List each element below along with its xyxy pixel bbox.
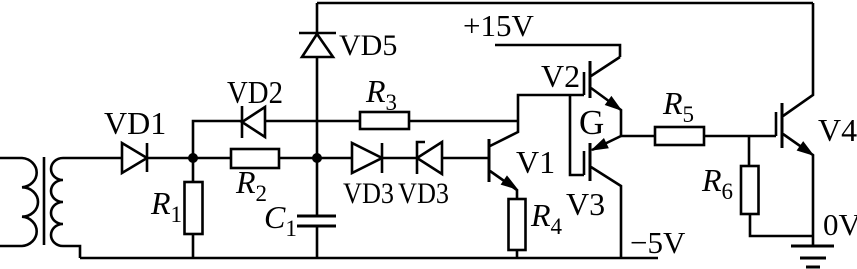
svg-text:V1: V1 [516,144,555,180]
transistor V2 [583,72,586,95]
wire R5 to V4 gate [704,135,776,138]
resistor R2 [231,149,279,168]
svg-text:R1: R1 [150,185,182,227]
diode VD3 (left) [352,143,382,173]
base drive branch wire [570,95,584,175]
wire R3 to V1 collector line [409,120,518,123]
transformer core [43,157,46,245]
svg-text:VD3: VD3 [343,177,394,210]
resistor R6 [748,136,751,166]
svg-text:0V: 0V [823,207,857,242]
svg-text:R5: R5 [662,85,694,127]
arrowhead V2 emitter [606,97,622,110]
wire between VD3 diodes [382,157,417,160]
resistor R4 [509,199,526,250]
transistor V3 [583,151,586,175]
wire node A up to VD2 branch [193,121,242,158]
wire VD2 to R3 [265,120,360,123]
svg-text:R4: R4 [530,197,563,239]
+15V rail wire [495,45,620,57]
diode VD1 [122,143,147,173]
transistor V1 [488,139,491,182]
arrowhead V4 emitter [797,142,813,155]
top rail wire [317,2,813,5]
bottom rail wire [80,257,658,260]
diode VD2 [242,106,265,138]
svg-text:−5V: −5V [630,225,686,260]
resistor R3 [360,112,409,129]
arrowhead V1 emitter [501,176,517,189]
wire node to R5 [621,135,655,138]
node A junction dot [188,153,198,163]
main vertical net line [316,3,319,258]
diode VD5 [299,33,336,57]
svg-text:V2: V2 [541,58,580,94]
svg-text:C1: C1 [264,199,297,241]
ground [791,246,834,267]
arrowhead V3 emitter [592,139,608,150]
wire VD3 to V1 base [442,157,489,160]
svg-text:V4: V4 [818,112,857,148]
wire R2 to VD3a [279,157,352,160]
svg-text:G: G [579,103,604,142]
svg-text:VD5: VD5 [339,29,397,62]
svg-text:VD1: VD1 [104,105,166,141]
svg-text:R3: R3 [365,73,397,115]
node dot at main vertical [312,153,322,163]
resistor R1 [192,158,195,182]
svg-text:VD3: VD3 [398,177,449,210]
transformer T secondary winding [51,158,122,258]
svg-text:R2: R2 [235,164,267,206]
resistor R5 [655,127,704,145]
transistor V4 [775,112,778,136]
wire VD1 to node A [147,157,231,160]
transformer T primary winding [0,158,38,246]
svg-text:V3: V3 [566,186,605,222]
svg-text:+15V: +15V [463,8,534,43]
capacitor C1 [297,216,336,226]
zener VD3 (right) [417,142,442,174]
svg-text:VD2: VD2 [227,74,283,110]
svg-text:R6: R6 [701,162,733,204]
